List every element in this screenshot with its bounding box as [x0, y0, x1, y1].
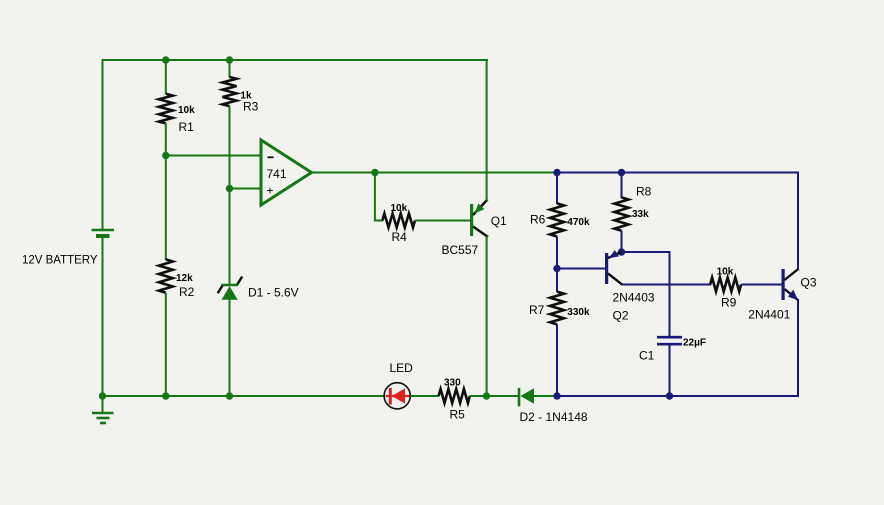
svg-text:LED: LED — [390, 361, 414, 375]
node Q2 base junction — [553, 265, 560, 272]
wire R7 bottom lead — [556, 324, 558, 397]
node op-amp output / blue rail junction — [553, 169, 560, 176]
node R2/ground rail junction — [162, 392, 169, 399]
svg-text:R4: R4 — [392, 230, 408, 244]
svg-text:R2: R2 — [179, 285, 195, 299]
resistor R6 — [550, 203, 564, 236]
svg-text:R6: R6 — [530, 213, 546, 227]
wire R1 top lead — [165, 60, 167, 94]
wire D1 bottom lead — [229, 299, 231, 396]
svg-text:470k: 470k — [567, 217, 590, 228]
node D1/ground rail junction — [226, 392, 233, 399]
wire non-inverting input — [230, 188, 263, 190]
wire R2 bottom lead — [165, 293, 167, 396]
transistor Q2 collector — [608, 274, 623, 285]
svg-text:330k: 330k — [567, 307, 590, 318]
transistor Q1 collector — [473, 227, 488, 238]
svg-text:Q3: Q3 — [801, 276, 817, 290]
wire R1 bottom lead — [165, 123, 167, 156]
wire bottom rail ground — [103, 395, 385, 397]
transistor Q3 emitter — [785, 289, 799, 301]
wire Q3 collector to top rail — [797, 172, 799, 270]
wire R9 to Q3 base — [741, 284, 781, 286]
svg-text:2N4401: 2N4401 — [748, 308, 790, 322]
wire R7 top lead — [556, 269, 558, 293]
battery B1 12V — [92, 230, 115, 236]
wire Q3 emitter to bottom rail — [797, 300, 799, 398]
svg-text:R9: R9 — [721, 296, 737, 310]
svg-text:10k: 10k — [717, 267, 734, 278]
svg-text:330: 330 — [444, 378, 461, 389]
node R8 top junction — [618, 169, 625, 176]
wire R4 right lead / Q1 base — [415, 220, 470, 222]
node C1/blue rail junction — [666, 392, 673, 399]
transistor Q3 base bar — [782, 269, 785, 300]
svg-text:2N4403: 2N4403 — [613, 291, 655, 305]
wire battery bottom lead — [102, 238, 104, 397]
wire inverting input — [166, 155, 262, 157]
wire R4 vertical drop — [374, 173, 376, 222]
wire R3 top lead — [229, 60, 231, 78]
transistor Q1 base bar — [470, 204, 473, 236]
wire C1 top lead — [669, 252, 671, 337]
resistor R8 — [615, 197, 629, 230]
wire blue top rail — [556, 172, 799, 174]
wire LED to R5 — [410, 395, 439, 397]
svg-text:R8: R8 — [636, 185, 652, 199]
wire R8 bottom lead — [621, 231, 623, 252]
svg-text:BC557: BC557 — [442, 243, 479, 257]
transistor Q3 collector — [785, 269, 799, 281]
wire R3 bottom lead — [229, 106, 231, 189]
transistor Q3 emitter arrow — [788, 290, 798, 301]
transistor Q2 base bar — [605, 253, 608, 284]
node R3 top junction — [226, 56, 233, 63]
resistor R4 — [382, 214, 415, 228]
transistor Q2 emitter arrow — [609, 250, 619, 258]
wire top rail +12V — [102, 59, 489, 61]
wire Q1 emitter to top rail — [486, 59, 488, 201]
svg-text:+: + — [267, 184, 274, 198]
wire Q2 collector to R9 — [622, 284, 712, 286]
node battery-/ground junction — [99, 392, 106, 399]
wire C1 bottom lead — [669, 345, 671, 396]
wire blue bottom rail — [556, 395, 799, 397]
svg-text:33k: 33k — [632, 209, 649, 220]
svg-text:D1 - 5.6V: D1 - 5.6V — [248, 286, 299, 300]
wire R4 left lead — [375, 220, 383, 222]
zener diode D1 5.6V — [218, 277, 243, 300]
svg-text:R5: R5 — [450, 408, 466, 422]
wire D1 top lead — [229, 189, 231, 287]
node output/R4 junction — [371, 169, 378, 176]
ground GND — [92, 396, 114, 423]
wire Q2 emitter node to C1 horizontal — [622, 251, 671, 253]
wire Q1 collector down — [486, 236, 488, 396]
wire R8 top lead — [621, 173, 623, 199]
svg-text:R1: R1 — [179, 120, 195, 134]
svg-text:R3: R3 — [243, 100, 259, 114]
resistor R5 — [439, 389, 470, 403]
resistor R9 — [710, 278, 741, 292]
svg-text:12V BATTERY: 12V BATTERY — [22, 253, 98, 267]
wire R6 top lead — [556, 173, 558, 205]
svg-text:22µF: 22µF — [683, 338, 706, 349]
diode D2 1N4148 — [519, 388, 558, 406]
svg-text:10k: 10k — [391, 203, 408, 214]
wire Q2 base — [557, 268, 605, 270]
wire battery top lead — [102, 59, 104, 229]
svg-text:10k: 10k — [178, 105, 195, 116]
svg-text:R7: R7 — [529, 303, 545, 317]
svg-text:C1: C1 — [639, 349, 655, 363]
node Q2 emitter junction — [618, 248, 625, 255]
svg-text:12k: 12k — [176, 273, 193, 284]
op-amp U1 741 — [261, 140, 312, 205]
led LED1 — [384, 383, 410, 409]
resistor R1 — [159, 94, 173, 124]
transistor Q2 emitter — [608, 252, 622, 258]
node R1 top junction — [162, 56, 169, 63]
wire op-amp output — [310, 172, 558, 174]
transistor Q1 emitter arrow — [474, 204, 484, 214]
transistor Q1 emitter — [473, 200, 488, 216]
resistor R7 — [550, 292, 564, 325]
wire R2 top lead — [165, 156, 167, 261]
node non-inverting input junction — [226, 185, 233, 192]
resistor R2 — [159, 259, 173, 292]
capacitor C1 22uF — [657, 337, 682, 344]
resistor R3 — [223, 77, 237, 106]
wire R5 to D2 — [470, 395, 519, 397]
svg-text:Q1: Q1 — [491, 214, 507, 228]
wire R6 bottom lead — [556, 237, 558, 270]
svg-text:741: 741 — [267, 167, 287, 181]
node inverting input junction — [162, 152, 169, 159]
node Q1 collector / R5 junction — [483, 392, 490, 399]
node R7/blue rail junction — [553, 392, 560, 399]
svg-text:D2 - 1N4148: D2 - 1N4148 — [520, 410, 588, 424]
svg-text:Q2: Q2 — [613, 309, 629, 323]
